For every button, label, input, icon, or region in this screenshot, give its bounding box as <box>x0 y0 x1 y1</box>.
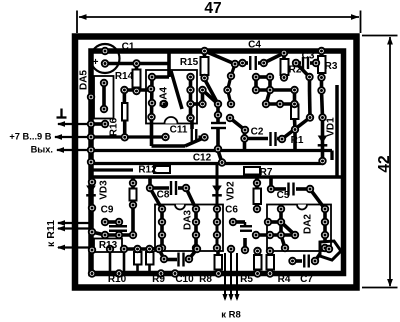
svg-text:+: + <box>93 57 99 68</box>
svg-text:C1: C1 <box>122 42 135 53</box>
svg-text:R14: R14 <box>115 71 134 82</box>
svg-text:C2: C2 <box>251 127 264 138</box>
svg-text:VD1: VD1 <box>326 117 337 137</box>
svg-text:R2: R2 <box>289 65 302 76</box>
svg-text:R12: R12 <box>138 165 157 176</box>
svg-text:R3: R3 <box>325 61 338 72</box>
svg-text:DA3: DA3 <box>183 210 194 230</box>
svg-text:R4: R4 <box>278 274 291 285</box>
svg-text:+7 В...9 В: +7 В...9 В <box>9 132 51 142</box>
svg-text:R9: R9 <box>152 274 165 285</box>
svg-text:C6: C6 <box>225 205 238 216</box>
svg-text:DA4: DA4 <box>159 87 170 107</box>
svg-text:Вых.: Вых. <box>31 145 53 155</box>
svg-text:R5: R5 <box>240 274 253 285</box>
svg-text:R7: R7 <box>260 167 273 178</box>
svg-text:C11: C11 <box>170 125 188 136</box>
svg-text:C10: C10 <box>175 274 194 285</box>
svg-text:R10: R10 <box>108 274 127 285</box>
svg-text:VD2: VD2 <box>226 181 237 201</box>
svg-text:DA5: DA5 <box>79 70 90 90</box>
svg-text:VD3: VD3 <box>99 180 110 200</box>
svg-text:R8: R8 <box>199 274 212 285</box>
svg-text:R1: R1 <box>291 135 304 146</box>
svg-text:42: 42 <box>376 155 393 172</box>
svg-text:C4: C4 <box>248 40 261 51</box>
svg-text:R16: R16 <box>109 117 120 136</box>
svg-text:C8: C8 <box>157 190 170 201</box>
svg-text:C3: C3 <box>302 51 315 62</box>
svg-text:к R8: к R8 <box>221 310 241 321</box>
svg-text:C7: C7 <box>300 274 313 285</box>
svg-text:C9: C9 <box>101 205 114 216</box>
svg-text:C12: C12 <box>193 153 212 164</box>
svg-text:47: 47 <box>204 0 221 17</box>
svg-text:к R11: к R11 <box>45 220 57 247</box>
svg-text:R15: R15 <box>180 57 199 68</box>
svg-text:DA2: DA2 <box>303 214 314 234</box>
svg-text:C5: C5 <box>277 190 290 201</box>
svg-text:R13: R13 <box>99 240 118 251</box>
